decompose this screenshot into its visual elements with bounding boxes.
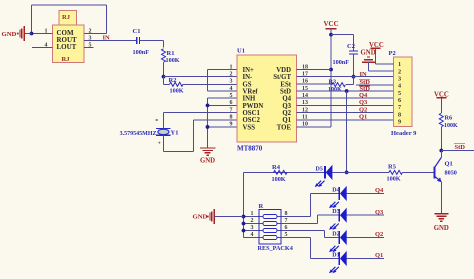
svg-text:100nF: 100nF: [333, 59, 350, 66]
svg-text:100K: 100K: [328, 87, 342, 93]
svg-text:IN: IN: [103, 34, 111, 41]
svg-text:7: 7: [398, 104, 401, 111]
svg-text:Q2: Q2: [375, 231, 383, 238]
svg-text:St/GT: St/GT: [273, 74, 291, 81]
svg-text:StD: StD: [280, 88, 291, 95]
svg-text:GND: GND: [193, 213, 208, 220]
svg-text:Q4: Q4: [359, 92, 368, 99]
svg-text:C2: C2: [347, 43, 355, 50]
svg-text:Q1: Q1: [359, 113, 367, 120]
svg-text:LOUT: LOUT: [57, 43, 77, 51]
svg-text:3: 3: [230, 79, 233, 85]
svg-text:GND: GND: [200, 158, 215, 165]
svg-text:5: 5: [230, 93, 233, 99]
svg-text:C1: C1: [133, 28, 141, 35]
svg-text:5: 5: [89, 43, 92, 49]
svg-text:TOE: TOE: [277, 124, 292, 131]
svg-text:OSC1: OSC1: [243, 110, 261, 117]
svg-text:Q1: Q1: [282, 117, 291, 124]
svg-text:2: 2: [398, 68, 401, 75]
svg-text:Q1: Q1: [375, 252, 383, 259]
svg-text:100K: 100K: [444, 123, 458, 129]
svg-text:3: 3: [89, 36, 92, 42]
svg-text:R: R: [259, 203, 264, 210]
svg-text:1: 1: [230, 64, 233, 70]
svg-text:VSS: VSS: [243, 124, 256, 131]
svg-text:3.579545MHZ: 3.579545MHZ: [120, 131, 157, 137]
svg-text:9: 9: [398, 119, 401, 126]
svg-text:100K: 100K: [272, 176, 286, 183]
svg-text:100nF: 100nF: [133, 49, 150, 56]
svg-text:INH: INH: [243, 96, 257, 103]
svg-text:GND: GND: [434, 225, 449, 232]
svg-text:4: 4: [251, 232, 254, 238]
svg-text:IN+: IN+: [243, 67, 255, 74]
svg-text:Header 9: Header 9: [391, 130, 417, 137]
svg-text:D3: D3: [332, 209, 339, 215]
svg-text:Q3: Q3: [375, 209, 384, 216]
svg-text:6: 6: [230, 100, 233, 106]
svg-text:R4: R4: [272, 164, 281, 171]
svg-text:2: 2: [230, 71, 233, 77]
svg-text:R6: R6: [445, 115, 453, 122]
svg-text:MT8870: MT8870: [237, 145, 263, 153]
svg-text:GND: GND: [2, 31, 17, 38]
svg-text:VDD: VDD: [276, 67, 291, 74]
svg-text:D1: D1: [332, 253, 339, 259]
svg-text:1: 1: [398, 61, 401, 68]
svg-text:D2: D2: [332, 232, 339, 238]
svg-text:1: 1: [251, 211, 254, 217]
svg-text:8: 8: [230, 115, 233, 121]
svg-text:D4: D4: [332, 188, 339, 194]
svg-text:RES_PACK4: RES_PACK4: [258, 245, 293, 252]
svg-text:8: 8: [398, 111, 401, 118]
svg-text:VCC: VCC: [324, 20, 339, 28]
svg-text:R2: R2: [169, 77, 177, 84]
svg-text:P2: P2: [389, 50, 396, 57]
svg-text:1: 1: [45, 29, 48, 35]
svg-text:Q1: Q1: [445, 160, 453, 167]
svg-text:3: 3: [398, 75, 401, 82]
svg-text:GND: GND: [361, 49, 376, 56]
svg-text:Q4: Q4: [375, 187, 384, 194]
svg-text:U1: U1: [237, 48, 245, 55]
svg-text:Q4: Q4: [282, 96, 291, 103]
svg-text:2: 2: [251, 218, 254, 224]
svg-text:PWDN: PWDN: [243, 103, 264, 110]
svg-text:R3: R3: [329, 78, 337, 85]
svg-text:2: 2: [89, 29, 92, 35]
svg-text:5: 5: [398, 90, 401, 97]
svg-text:R5: R5: [388, 164, 397, 171]
svg-text:VRef: VRef: [243, 88, 259, 95]
svg-text:RJ: RJ: [62, 56, 71, 63]
svg-text:4: 4: [45, 43, 48, 49]
svg-text:4: 4: [398, 83, 401, 90]
svg-text:9: 9: [230, 122, 233, 128]
svg-text:Q3: Q3: [359, 99, 368, 106]
svg-text:StD: StD: [455, 144, 466, 151]
svg-text:+: +: [158, 141, 161, 147]
svg-text:100K: 100K: [387, 176, 401, 183]
svg-text:8050: 8050: [445, 169, 457, 176]
svg-text:6: 6: [398, 97, 401, 104]
svg-text:Q3: Q3: [282, 103, 291, 110]
svg-text:RJ: RJ: [62, 14, 71, 21]
svg-text:ESt: ESt: [280, 81, 291, 88]
svg-text:100K: 100K: [170, 88, 184, 95]
svg-text:4: 4: [230, 86, 233, 92]
svg-text:D5: D5: [316, 166, 323, 172]
svg-text:GS: GS: [243, 81, 252, 88]
svg-text:Y1: Y1: [171, 130, 179, 137]
svg-text:IN: IN: [360, 71, 368, 78]
svg-text:7: 7: [230, 107, 233, 113]
svg-text:OSC2: OSC2: [243, 117, 261, 124]
svg-text:3: 3: [251, 225, 254, 231]
svg-text:Q2: Q2: [282, 110, 291, 117]
svg-text:IN-: IN-: [243, 74, 254, 81]
svg-text:100K: 100K: [166, 57, 180, 64]
svg-text:Q2: Q2: [359, 106, 367, 113]
